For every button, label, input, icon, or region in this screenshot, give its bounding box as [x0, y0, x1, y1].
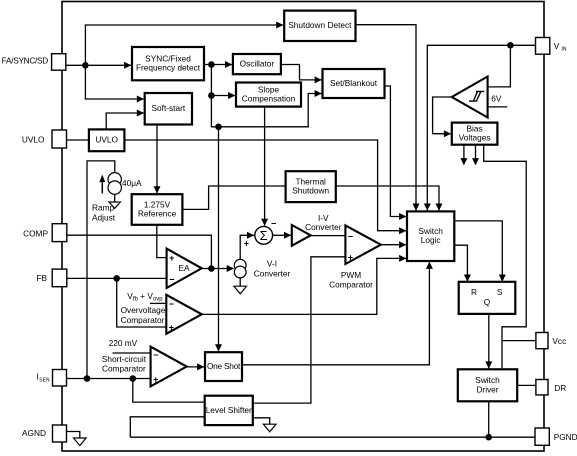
block SYNC/Fixed Frequency detect	[132, 47, 204, 80]
wire V-I Converter to summing junction	[240, 232, 254, 260]
svg-text:Short-circuit: Short-circuit	[102, 354, 147, 364]
svg-text:Σ: Σ	[260, 228, 268, 243]
svg-text:+: +	[244, 239, 249, 249]
label PWM Comparator	[329, 270, 373, 290]
wire FB pin to EA inverting input	[67, 277, 166, 279]
pin UVLO	[52, 130, 67, 148]
ground level shifter	[263, 424, 276, 432]
svg-text:Reference: Reference	[138, 209, 177, 219]
svg-text:+: +	[348, 252, 353, 262]
wire UVLO pin to UVLO block	[67, 139, 89, 141]
svg-text:V: V	[554, 41, 560, 51]
block Switch Driver	[458, 369, 517, 401]
junction node one-shot tap	[215, 124, 222, 131]
svg-text:Voltages: Voltages	[459, 133, 491, 143]
wire summing junction to I-V Converter	[273, 232, 292, 239]
wire Shutdown Detect output to Switch Logic top input	[356, 25, 420, 211]
pin VIN	[536, 38, 550, 55]
ground V-I converter	[234, 286, 247, 294]
svg-text:Converter: Converter	[254, 268, 291, 278]
svg-text:UVLO: UVLO	[95, 135, 118, 145]
wire Overvoltage Comparator reference stub	[150, 302, 166, 304]
ground ramp adjust	[109, 202, 120, 208]
svg-text:AGND: AGND	[22, 428, 46, 438]
junction node slope tap	[208, 92, 215, 99]
current source I1 Ramp Adjust 40uA	[108, 173, 121, 195]
junction node EA output node	[208, 265, 215, 272]
svg-text:Driver: Driver	[476, 384, 498, 394]
svg-text:−: −	[271, 218, 276, 228]
label I-V Converter	[305, 213, 342, 232]
wire Switch Driver output to DR pin	[517, 384, 536, 386]
wire Switch Logic to latch R input	[454, 245, 471, 282]
svg-text:Logic: Logic	[421, 235, 441, 245]
svg-text:+: +	[153, 375, 158, 385]
wire VIN node down to 6V regulator input	[489, 45, 511, 87]
pin Vcc	[536, 333, 548, 349]
wire FA node down to Soft-start upper input	[85, 65, 144, 102]
svg-text:+: +	[169, 253, 174, 263]
wire Thermal Shutdown output to Switch Logic top input	[336, 186, 443, 211]
label Ramp Adjust	[92, 203, 116, 223]
svg-text:S: S	[497, 287, 503, 297]
svg-text:Converter: Converter	[305, 222, 342, 232]
wire VIN pin to Switch Logic top input	[424, 45, 536, 210]
wire Set/Blankout output to Switch Logic input	[385, 86, 407, 220]
block 1.275V Reference	[132, 194, 183, 225]
svg-text:FB: FB	[36, 273, 47, 283]
svg-text:Comparator: Comparator	[102, 364, 146, 374]
pin FA/SYNC/SD	[52, 54, 66, 70]
svg-text:Frequency detect: Frequency detect	[136, 63, 201, 73]
svg-text:220 mV: 220 mV	[109, 338, 138, 348]
regulator U-6V with hysteresis	[452, 77, 488, 118]
wire 1.275V Reference to EA non-inverting input	[157, 225, 166, 258]
comparator PWM Comparator	[345, 225, 381, 264]
block Soft-start	[145, 93, 192, 125]
wire Ramp Adjust current source to ground	[114, 194, 116, 202]
wire AGND pin to ground symbol	[67, 432, 80, 439]
wire node to Slope Compensation input	[211, 65, 235, 100]
wire Switch Logic to latch S input	[454, 221, 506, 282]
svg-text:−: −	[348, 231, 353, 241]
junction node ramp junction	[84, 375, 91, 382]
block RS latch	[459, 282, 516, 314]
svg-text:Q: Q	[484, 297, 491, 307]
summing junction sigma	[255, 226, 273, 244]
wire ISEN node to Level Shifter input	[133, 379, 205, 403]
junction node VIN junction	[507, 42, 514, 49]
wire PWM Comparator output to Switch Logic input	[381, 241, 406, 248]
svg-text:−: −	[169, 274, 174, 284]
pin DR	[536, 380, 548, 395]
wire Vcc pin tee	[502, 340, 536, 342]
svg-text:SEN: SEN	[39, 377, 50, 383]
wire 1.275V Reference to Thermal Shutdown	[182, 186, 285, 209]
svg-text:EA: EA	[178, 263, 190, 273]
wire FB node to Overvoltage Comparator input	[117, 278, 166, 327]
svg-text:DR: DR	[554, 383, 566, 393]
junction node PGND junction	[485, 434, 492, 441]
wire Level Shifter ground stub	[253, 418, 270, 424]
svg-text:Adjust: Adjust	[92, 213, 116, 223]
svg-text:Oscillator: Oscillator	[240, 59, 275, 69]
wire node down to One Shot top input	[215, 127, 222, 352]
svg-text:Overvoltage: Overvoltage	[121, 305, 166, 315]
svg-text:PWM: PWM	[341, 270, 361, 280]
wire FA node up to Shutdown Detect input	[85, 22, 283, 66]
svg-text:V-I: V-I	[267, 259, 277, 269]
wire node down and over to second node	[211, 96, 218, 127]
wire FA/SYNC/SD pin to SYNC/Fixed Frequency detect input	[66, 62, 132, 69]
block UVLO	[89, 129, 125, 151]
wire latch Q output to Switch Driver	[485, 315, 492, 369]
svg-text:PGND: PGND	[554, 432, 577, 442]
comparator Overvoltage Comparator	[166, 295, 202, 334]
svg-text:UVLO: UVLO	[22, 134, 45, 144]
wire I-V Converter to PWM Comparator inverting input	[311, 235, 345, 237]
wire UVLO output to Switch Logic input	[124, 140, 406, 234]
svg-text:Compensation: Compensation	[242, 94, 296, 104]
wire Short-circuit Comparator output to One Shot	[187, 363, 205, 370]
svg-text:+: +	[169, 323, 174, 333]
pin COMP	[52, 224, 67, 242]
wire Bias Voltages output arrow 1	[460, 145, 467, 166]
svg-text:COMP: COMP	[23, 228, 48, 238]
junction node level shifter tap	[130, 375, 137, 382]
wire Short-circuit Comparator reference stub	[113, 352, 151, 354]
junction node FB junction	[113, 275, 120, 282]
svg-text:One Shot: One Shot	[207, 361, 241, 371]
amplifier I-V Converter	[292, 225, 311, 246]
svg-text:Vcc: Vcc	[552, 336, 566, 346]
wire 6V regulator stub	[489, 106, 508, 108]
pin PGND	[535, 428, 549, 445]
wire UVLO block top to Soft-start lower input	[106, 110, 144, 130]
wire Level Shifter to PGND rail	[130, 417, 204, 437]
junction node FA junction	[82, 62, 89, 69]
wire SYNC detect output to Oscillator input	[204, 61, 232, 68]
block Thermal Shutdown	[286, 171, 336, 202]
svg-text:Comparator: Comparator	[121, 315, 165, 325]
op-amp EA error amplifier	[167, 249, 202, 288]
svg-text:−: −	[153, 350, 158, 360]
svg-text:Set/Blankout: Set/Blankout	[330, 78, 378, 88]
wire Soft-start output to 1.275V Reference	[154, 125, 161, 194]
label V-I Converter	[254, 259, 291, 279]
wire ISEN node to Ramp Adjust current source	[87, 161, 115, 379]
block One Shot	[205, 352, 242, 381]
svg-text:R: R	[471, 287, 477, 297]
block Level Shifter	[205, 396, 253, 425]
svg-text:Soft-start: Soft-start	[152, 103, 186, 113]
block Bias Voltages	[452, 123, 498, 145]
ground AGND symbol	[74, 438, 87, 446]
wire EA output to V-I Converter	[202, 265, 234, 272]
wire Switch Driver to PGND rail	[488, 401, 490, 437]
svg-text:6V: 6V	[491, 93, 502, 103]
pin FB	[52, 269, 67, 287]
wire Oscillator output to Set/Blankout upper input	[281, 65, 322, 84]
block Slope Compensation	[236, 83, 301, 107]
svg-text:IN: IN	[562, 46, 567, 52]
wire ISEN pin to Short-circuit Comparator input	[67, 378, 151, 380]
wire Level Shifter output to PWM Comparator non-inverting input	[253, 257, 345, 403]
wire PGND rail to PGND pin	[130, 436, 535, 438]
wire One Shot output to Switch Logic bottom input	[242, 262, 433, 365]
label Short-circuit Comparator	[102, 354, 147, 374]
svg-text:Level Shifter: Level Shifter	[206, 405, 252, 415]
block Shutdown Detect	[284, 11, 355, 41]
current source I2 V-I Converter	[234, 259, 246, 278]
svg-text:Comparator: Comparator	[329, 279, 373, 289]
junction node oscillator tap	[208, 61, 215, 68]
svg-text:FA/SYNC/SD: FA/SYNC/SD	[2, 55, 49, 65]
block Oscillator	[233, 54, 281, 74]
label Overvoltage Comparator	[121, 305, 166, 325]
wire V-I Converter to ground	[239, 278, 241, 287]
svg-text:Shutdown Detect: Shutdown Detect	[288, 20, 352, 30]
block Switch Logic	[407, 211, 454, 261]
arrow ramp current direction	[99, 175, 105, 194]
wire Overvoltage Comparator output to Switch Logic input	[202, 255, 406, 315]
wire Bias Voltages output to Vcc pin and Switch Driver supply	[484, 145, 527, 369]
wire COMP pin to EA output node	[67, 235, 212, 268]
pin AGND	[53, 425, 67, 442]
comparator Short-circuit Comparator	[151, 347, 187, 387]
svg-text:−: −	[169, 299, 174, 309]
wire Bias Voltages output arrow 2	[472, 145, 479, 166]
block Set/Blankout	[323, 69, 385, 98]
pin ISEN	[53, 370, 67, 387]
svg-text:Shutdown: Shutdown	[292, 186, 329, 196]
wire node to Set/Blankout lower input	[219, 90, 322, 127]
wire 6V regulator output to Bias Voltages input	[433, 97, 452, 137]
wire Slope Compensation to summing junction	[261, 107, 268, 226]
svg-text:40μA: 40μA	[122, 178, 142, 188]
